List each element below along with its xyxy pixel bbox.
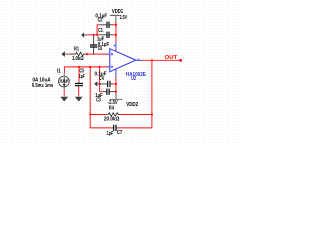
wire out right vertical [151, 60, 153, 128]
wire noninverting input row [64, 67, 107, 73]
op-amp V+ stub [115, 42, 117, 52]
svg-text:1pF: 1pF [79, 74, 85, 80]
capacitor C4 [100, 81, 113, 87]
junction C4 left lead [99, 83, 101, 85]
ground under I1 [60, 97, 68, 102]
junction C4 at VDD2 rail [115, 83, 117, 85]
wire inverting input row left of R1 [67, 53, 70, 55]
capacitor C6 [90, 35, 97, 54]
OUT terminal dot [179, 59, 182, 62]
on-page connector arrow R1 input [61, 51, 67, 57]
junction R4 right [151, 114, 153, 116]
ground under C5 [75, 97, 83, 102]
svg-text:C4: C4 [99, 76, 104, 82]
junction C2 branch at node A [96, 34, 98, 36]
svg-text:R4: R4 [109, 105, 114, 111]
wire C7 row right [118, 127, 152, 129]
svg-text:C1: C1 [98, 28, 103, 34]
wire C2 right to rail [113, 24, 116, 26]
svg-text:2.5V: 2.5V [120, 15, 128, 21]
op-amp V- stub [115, 69, 117, 78]
wire feedback left vertical [90, 67, 111, 128]
svg-text:0.5ms 1ms: 0.5ms 1ms [32, 83, 53, 89]
op-amp U2 triangle [110, 49, 136, 72]
junction C6 top at node A [93, 34, 95, 36]
svg-text:VDD2: VDD2 [126, 102, 138, 108]
junction feedback at noninverting row [89, 66, 91, 68]
op-amp output stub [136, 59, 142, 61]
current source I1 [59, 73, 70, 90]
junction R4 left [89, 114, 91, 116]
svg-text:R1: R1 [74, 46, 79, 52]
resistor R4 [107, 113, 120, 116]
svg-text:VDD1: VDD1 [112, 9, 123, 15]
svg-text:U2: U2 [131, 76, 136, 82]
svg-text:HA1002E: HA1002E [126, 72, 146, 78]
wire C5 ground leg [78, 86, 80, 96]
resistor R1 [71, 52, 86, 56]
wire C4 chain vertical [100, 67, 103, 92]
svg-text:20.0kΩ: 20.0kΩ [104, 117, 120, 123]
wire I1 ground leg [63, 90, 65, 96]
junction C1 at VDD1 rail [115, 34, 117, 36]
op-amp input polarity marks [111, 53, 113, 56]
on-page connector arrow node A [81, 32, 87, 37]
svg-text:C7: C7 [117, 130, 123, 136]
junction C2 at VDD1 rail [115, 24, 117, 26]
wire R4 row [90, 114, 152, 116]
wire lower supply rail [115, 77, 117, 91]
svg-text:1pF: 1pF [107, 131, 113, 137]
junction C5 at noninverting row [78, 66, 80, 68]
wire C1 right to rail [113, 34, 116, 36]
wire output row [142, 59, 181, 61]
junction output node [151, 59, 153, 61]
wire C4 right to rail [112, 83, 116, 85]
op-amp pin tick V+ [114, 45, 115, 46]
wire C2 left vertical [97, 25, 100, 35]
wire C5 top leg [78, 67, 80, 81]
capacitor C5 [75, 81, 83, 86]
wire node A row [87, 34, 99, 36]
wire VDD1 rail red segment [115, 22, 117, 42]
junction C3 at VDD2 rail [115, 91, 117, 93]
svg-text:C6: C6 [98, 46, 103, 52]
op-amp input stubs [108, 54, 110, 67]
VDD2 power symbol [110, 92, 123, 100]
wire inverting input row to op-amp [86, 53, 108, 55]
capacitor C3 [103, 89, 116, 95]
svg-text:1.0kΩ: 1.0kΩ [72, 56, 84, 62]
svg-text:OUT: OUT [165, 55, 179, 61]
on-page connector arrow C4 [94, 81, 100, 86]
junction C4 branch at noninverting row [99, 66, 101, 68]
svg-text:C2: C2 [98, 18, 103, 24]
op-amp pin tick output [137, 59, 140, 60]
capacitor C1 [99, 32, 112, 38]
svg-text:C3: C3 [96, 97, 101, 103]
capacitor C7 [111, 125, 118, 131]
VDD1 power symbol [110, 15, 120, 22]
svg-text:I1: I1 [57, 68, 61, 74]
junction R1 output wire [86, 53, 88, 55]
capacitor C2 [100, 22, 112, 28]
